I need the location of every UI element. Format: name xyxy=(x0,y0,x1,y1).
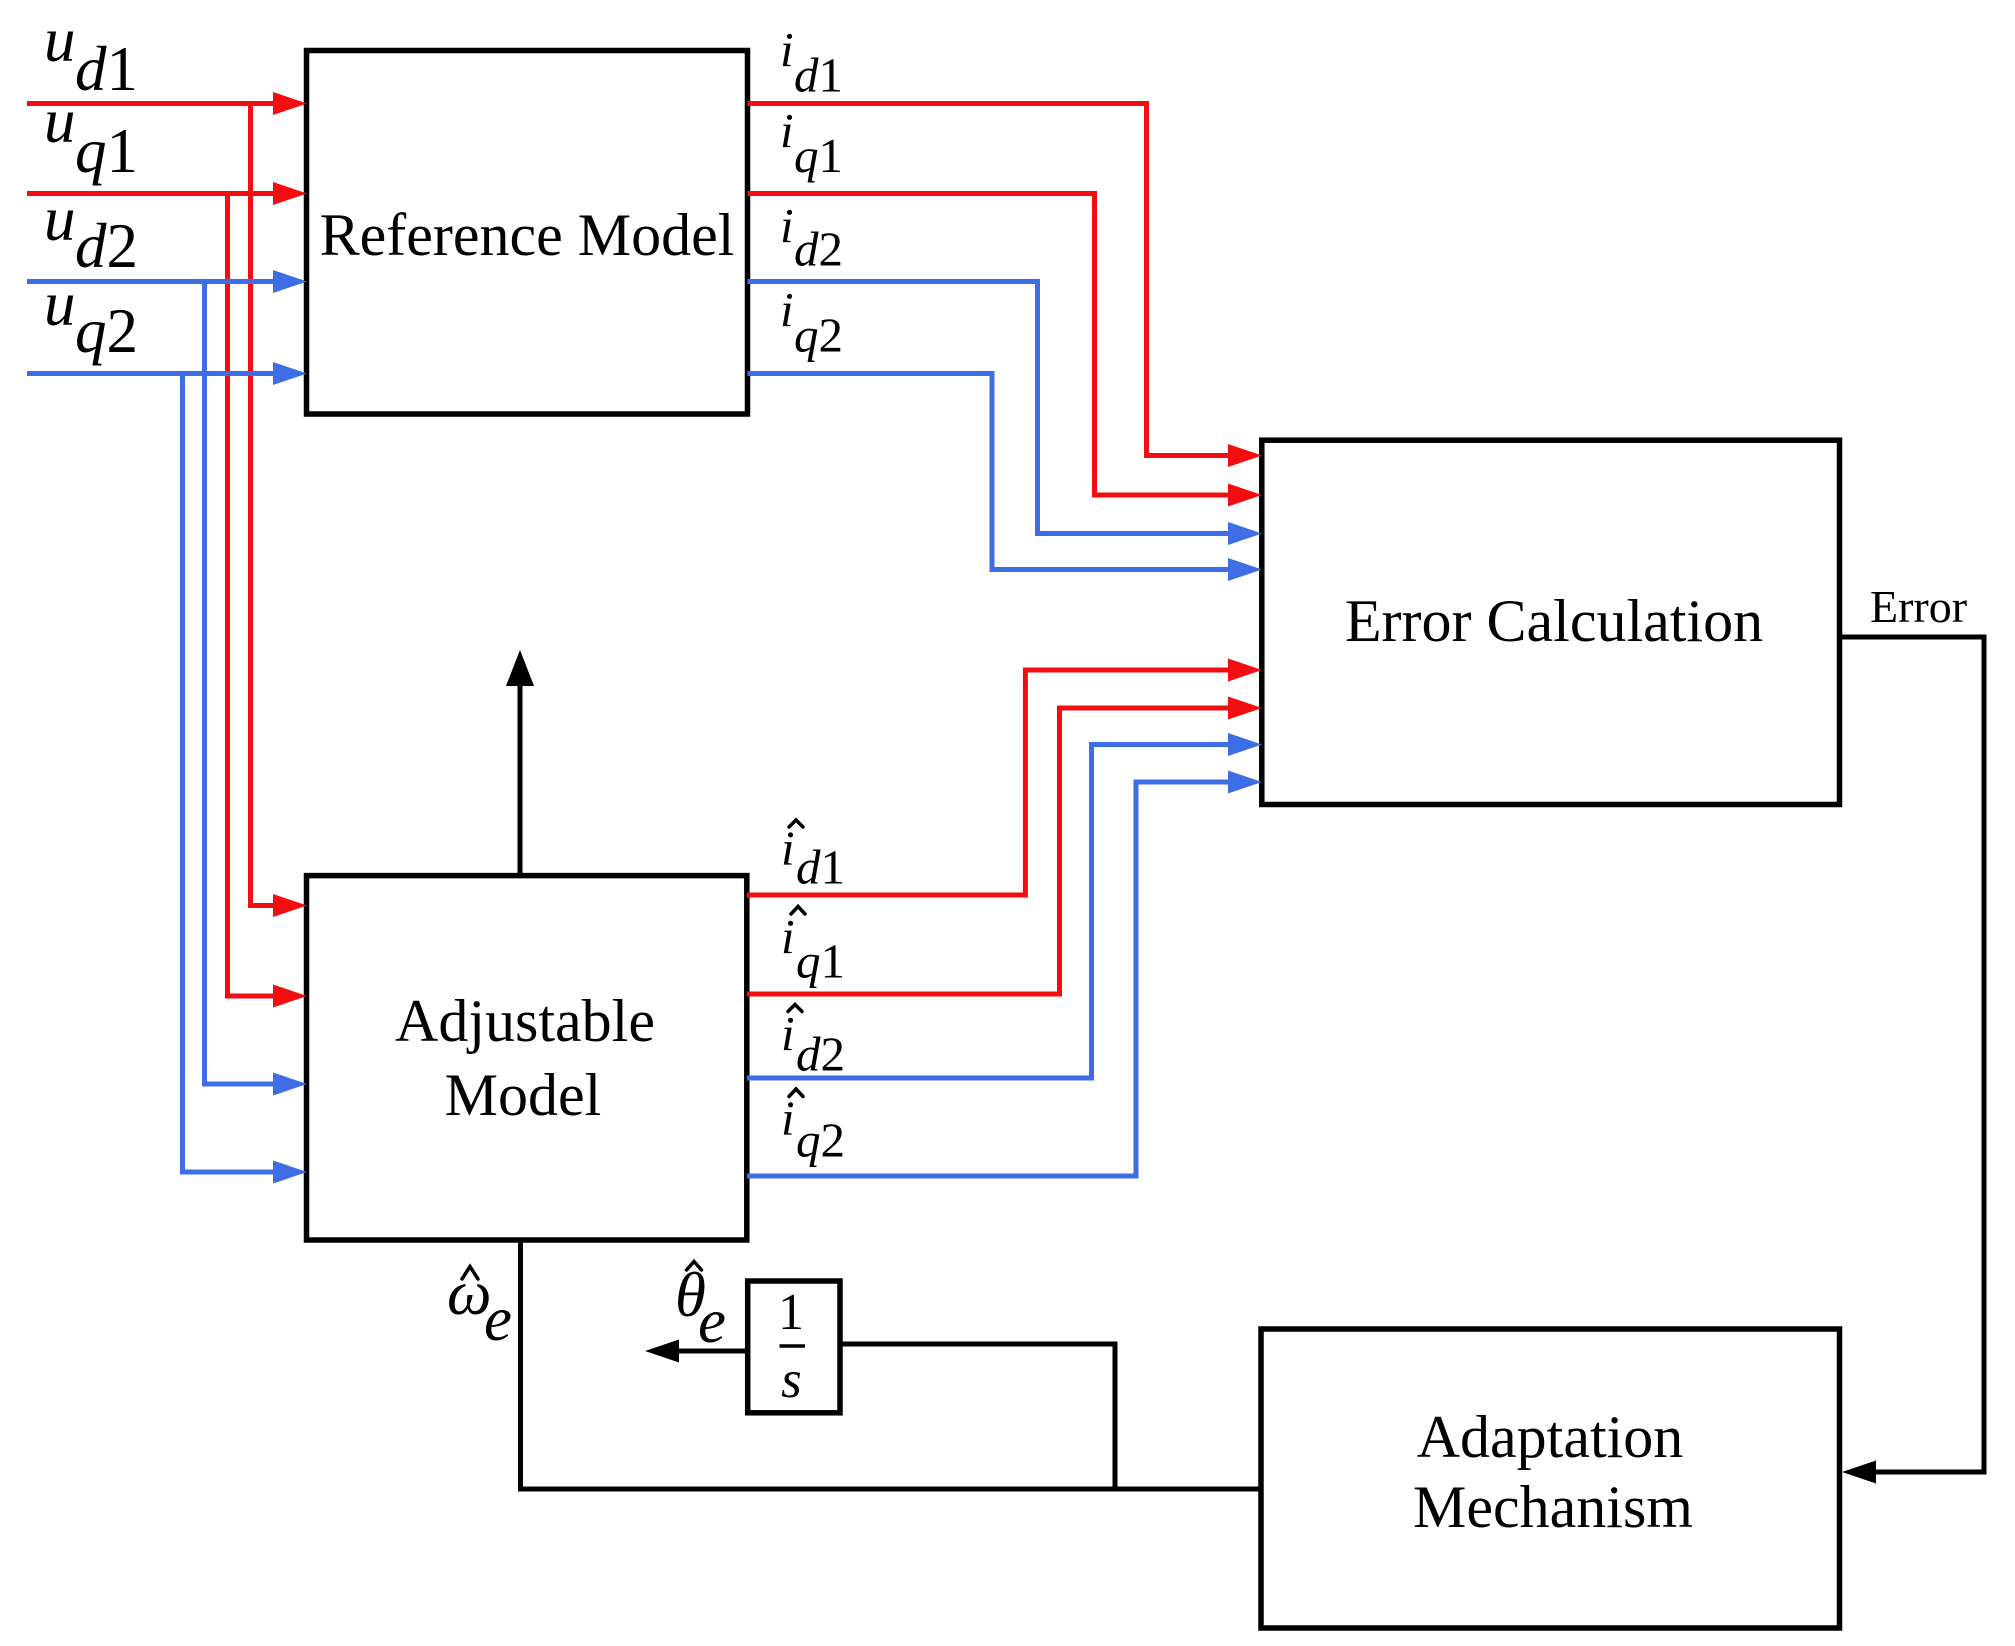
svg-text:q1: q1 xyxy=(796,934,845,989)
svg-text:q1: q1 xyxy=(794,128,843,183)
svg-text:s: s xyxy=(781,1351,802,1409)
svg-text:u: u xyxy=(44,184,76,254)
svg-text:d2: d2 xyxy=(794,222,843,277)
svg-text:q2: q2 xyxy=(796,1113,845,1168)
svg-text:Reference Model: Reference Model xyxy=(320,202,735,268)
svg-text:i: i xyxy=(781,909,795,964)
svg-text:Error Calculation: Error Calculation xyxy=(1345,588,1763,654)
svg-text:d1: d1 xyxy=(75,34,138,104)
svg-text:u: u xyxy=(44,5,76,75)
svg-text:q2: q2 xyxy=(794,308,843,363)
svg-text:q2: q2 xyxy=(75,296,138,366)
svg-text:i: i xyxy=(780,198,794,253)
svg-text:d2: d2 xyxy=(75,211,138,281)
svg-text:u: u xyxy=(44,269,76,339)
svg-text:i: i xyxy=(781,821,795,876)
svg-text:e: e xyxy=(484,1284,512,1354)
svg-text:i: i xyxy=(780,282,794,337)
svg-text:e: e xyxy=(698,1286,726,1356)
svg-text:q1: q1 xyxy=(75,116,138,186)
svg-text:Error: Error xyxy=(1870,581,1967,632)
svg-text:d1: d1 xyxy=(794,48,843,103)
svg-text:i: i xyxy=(781,1006,795,1061)
svg-text:Mechanism: Mechanism xyxy=(1413,1474,1693,1540)
svg-text:u: u xyxy=(44,86,76,156)
svg-text:i: i xyxy=(780,103,794,158)
svg-text:Adjustable: Adjustable xyxy=(395,988,655,1054)
svg-text:1: 1 xyxy=(778,1284,804,1341)
svg-text:i: i xyxy=(780,22,794,77)
svg-text:d1: d1 xyxy=(796,840,845,895)
svg-text:d2: d2 xyxy=(796,1027,845,1082)
svg-text:i: i xyxy=(781,1091,795,1146)
svg-text:Adaptation: Adaptation xyxy=(1417,1404,1684,1470)
svg-text:Model: Model xyxy=(445,1062,602,1128)
